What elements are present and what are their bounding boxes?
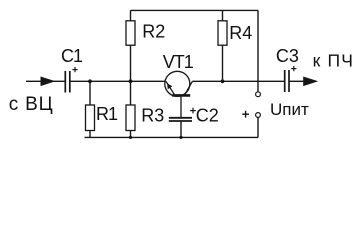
svg-text:C2: C2 [196, 105, 219, 125]
C1 plus mark [72, 67, 77, 72]
resistor R4 [218, 10, 227, 81]
supply plus mark [242, 111, 249, 118]
C3 plus mark [291, 66, 296, 71]
node base wire / R2 R3 [129, 79, 133, 83]
svg-text:к ПЧ: к ПЧ [313, 51, 355, 71]
node collector wire / R4 [221, 79, 225, 83]
wire C1 to transistor [70, 80, 165, 82]
terminal Uпит lower [256, 113, 261, 118]
svg-text:R2: R2 [142, 22, 165, 42]
terminal Uпит plus upper [256, 92, 261, 97]
capacitor C3 [285, 70, 289, 92]
node rail / R3 [129, 136, 132, 139]
svg-text:C3: C3 [276, 46, 299, 66]
resistor R1 [86, 81, 95, 137]
svg-text:R3: R3 [141, 105, 164, 125]
svg-text:Uпит: Uпит [270, 100, 309, 119]
C2 plus mark [190, 108, 196, 114]
wire input lead [26, 80, 41, 82]
wire lower terminal to ground rail [257, 117, 259, 137]
wire top supply rail [131, 9, 259, 11]
output arrow [303, 77, 318, 87]
resistor R2 [126, 10, 135, 81]
svg-text:C1: C1 [61, 46, 83, 66]
capacitor C2 [169, 118, 192, 121]
wire arrow to C1 [53, 80, 65, 82]
node rail / C2 [179, 136, 182, 139]
svg-text:R4: R4 [229, 23, 252, 43]
svg-text:VT1: VT1 [163, 52, 194, 72]
svg-text:R1: R1 [96, 104, 118, 124]
wire supply drop from rail [257, 10, 259, 91]
wire bottom common rail [85, 136, 259, 138]
wire C2 to ground rail [180, 121, 182, 137]
transistor VT1 [165, 71, 193, 117]
input arrow [41, 77, 56, 87]
wire C3 to output arrow [290, 80, 304, 82]
svg-text:с ВЦ: с ВЦ [9, 94, 54, 115]
resistor R3 [126, 81, 135, 137]
wire collector to C3 [192, 80, 284, 82]
node base wire / R1 [88, 79, 92, 83]
capacitor C1 [65, 71, 70, 93]
